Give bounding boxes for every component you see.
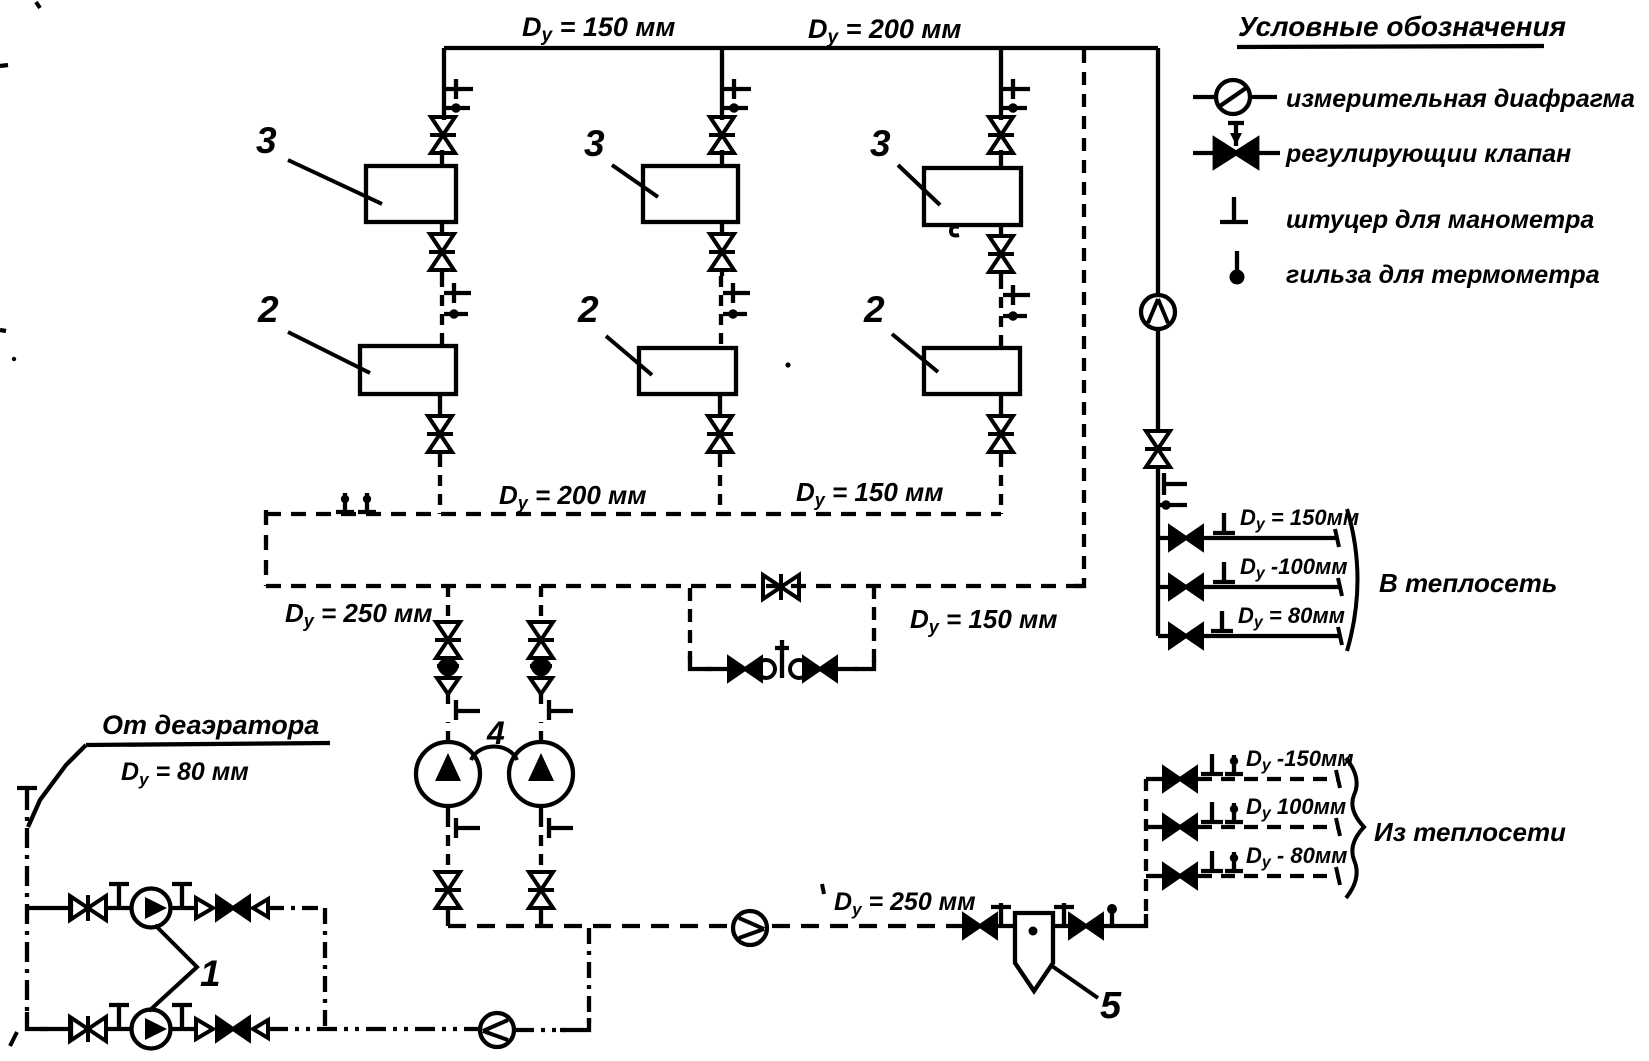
wire col2 dashed to return [718,456,722,514]
manometer fitting net2 [1213,562,1235,582]
heater 3 col1 [366,166,456,222]
valve col1 mid [429,234,455,270]
heater 3 col3 [924,168,1021,225]
branch to net 2 Dy100 [1158,585,1340,589]
elbow riser [560,1018,589,1030]
svg-text:В теплосеть: В теплосеть [1379,568,1557,598]
bypass elbow left [690,656,712,669]
manometer fitting col2 top [724,79,751,99]
branch from net 2 Dy100 [1146,825,1162,829]
mud filter 5 [1015,913,1053,991]
wire elbow to return line2 [1074,578,1084,586]
svg-text:2: 2 [863,289,885,330]
valve lower right solid [217,1018,249,1040]
wire col3 between [999,225,1003,278]
valve stack B: check valve bulb [530,658,552,677]
end tick net2 [1338,578,1342,596]
valve column1 top [430,117,456,153]
leader 2 col2 [606,336,652,375]
svg-text:измерительная диафрагма: измерительная диафрагма [1286,85,1635,113]
thermometer sleeve col2 top [724,103,748,112]
leader 2 col1 [288,332,370,373]
pipe 250 bottom dashed [448,924,962,928]
branch from net 3 Dy80 [1146,874,1162,878]
valve stack A: gate valve [435,622,461,658]
pump 4 A [416,742,480,806]
wire left elbow line1-line2 [264,510,268,586]
small c artifact under heater3 col3 [951,227,959,236]
valve stack A: foot triangle [437,678,459,694]
legend manometer fitting symbol [1220,197,1248,222]
heater 2 col2 [639,348,736,394]
thermometer sleeve pair on line1 [336,493,354,512]
manometer fitting lower 1 [109,1005,129,1029]
wire deaerator diagonal [28,745,86,827]
manometer fitting col3 top [1003,79,1030,99]
end tick from-net1 [1336,770,1340,788]
legend control valve symbol [1193,122,1280,153]
fitting pair from-net3 [1201,851,1223,871]
svg-text:штуцер для манометра: штуцер для манометра [1286,206,1594,234]
cap tick left vertical [17,786,37,790]
wire lower dash-dot-dot to diaphragm [268,1027,480,1031]
heater 2 col1 [360,346,456,394]
wire loop right vertical [323,908,327,1029]
wire col1 dashed mid [440,276,444,346]
pump feed column B [539,586,543,742]
pump1 lower suction [40,1027,70,1031]
wire dash-dot to loop [268,906,325,910]
end tick from-net2 [1336,818,1340,836]
leader 5 [1052,966,1098,998]
leader 3 col1 [288,160,382,204]
wire A lower dashed [446,816,450,872]
legend thermometer sleeve symbol [1235,251,1239,272]
scan tick bottom left [10,1032,17,1046]
valve col3 mid [988,236,1014,272]
bypass ball right [790,660,808,678]
manometer fitting col3 mid [1003,285,1030,305]
bypass drop left [688,588,692,660]
tail triangle lower [253,1020,268,1038]
wire return line1 Dy200/Dy150 dashed [266,512,1001,516]
heater 3 col2 [643,166,738,222]
branch to net 1 Dy150 [1158,536,1337,540]
end tick from-net3 [1336,867,1340,885]
wire [171,1027,196,1031]
brace from-net [1346,758,1364,898]
pipe: right supply main [1156,48,1160,636]
tick before label [822,884,824,894]
end tick net1 [1335,529,1339,547]
valve col2 bottom [707,416,733,452]
valve upper right solid [217,897,249,919]
thermometer sleeve col1 mid [444,309,468,318]
valve before mud filter [964,915,996,937]
wire column3 upper [999,48,1003,170]
underline deaerator [86,743,330,745]
valve right main [1145,431,1171,467]
thermometer sleeve right main [1158,503,1187,507]
thermometer sleeve col3 mid [1003,311,1027,320]
manometer fitting net1 [1213,513,1235,533]
svg-text:5: 5 [1100,985,1122,1027]
wire col1 dashed to return [438,456,442,514]
elbow left bottom [27,1012,48,1029]
valve upper left [70,895,106,921]
scan marks [0,65,8,331]
wire riser from lower return to 250 line [587,928,591,1029]
valve A bottom [435,872,461,908]
manometer fitting upper 2 [172,884,192,908]
wire column2 upper [720,48,724,168]
svg-text:3: 3 [256,120,277,161]
pump 1 upper [132,889,171,928]
valve branch net2 [1170,576,1202,598]
pump 1 lower [132,1010,171,1049]
heater 2 col3 [924,348,1020,394]
svg-text:Dy - 80мм: Dy - 80мм [1246,843,1347,871]
manometer fitting B lower [541,806,573,838]
wire A to 250 line [446,906,450,926]
svg-text:От деаэратора: От деаэратора [102,710,319,740]
manometer fitting col1 mid [444,283,471,303]
valve on line2 above bypass [763,574,799,600]
wire col3 lower [999,394,1003,456]
diaphragm on 250 line [733,911,767,945]
wire left feed vertical dash-dot [25,790,29,1016]
pipe: top header Dy150/Dy200 [444,46,1158,50]
valve stack B: foot triangle [530,678,552,694]
thermometer sleeve col3 top [1003,103,1027,112]
bypass elbow right [855,660,874,669]
manometer fitting right main [1164,473,1187,495]
valve stack A: check valve bulb [437,658,459,677]
wire col1 lower [438,394,442,456]
wire dashed drop from header [1082,50,1086,580]
manometer fitting lower 2 [172,1005,192,1029]
svg-text:Из теплосети: Из теплосети [1374,817,1566,847]
svg-text:2: 2 [577,289,599,330]
wire col3 dashed mid [999,278,1003,348]
wire from-net elbow [1127,914,1146,926]
manometer fitting net3 [1211,611,1233,631]
leader 4 curve [471,747,517,761]
leader 1 zigzag [149,925,197,1011]
manometer fitting right of filter [1054,903,1074,926]
manometer fitting B upper [549,700,573,720]
wire B to 250 line [539,906,543,926]
fitting pair from-net1 [1201,754,1223,774]
bypass run [705,667,858,671]
diaphragm lower return [480,1013,514,1047]
wire B lower dashed [539,816,543,872]
valve col3 bottom [988,416,1014,452]
leader 2 col3 [892,334,938,372]
pump 4 B [509,742,573,806]
svg-text:Dy 100мм: Dy 100мм [1246,794,1346,822]
tail triangle upper [253,899,268,917]
wire col2 dashed mid [719,276,723,348]
manometer fitting A lower [448,806,480,838]
valve col2 mid [709,234,735,270]
wire col3 dashed to return [999,456,1003,514]
valve col1 bottom [427,416,453,452]
wire [171,906,196,910]
valve stack B: gate valve [528,622,554,658]
svg-text:гильза для термометра: гильза для термометра [1286,261,1600,289]
branch from net 1 Dy150 [1146,777,1162,781]
wire from-net dashed drop [1144,779,1148,917]
valve from-net2 [1164,816,1196,838]
pump1 upper suction [27,906,70,910]
branch to net 3 Dy80 [1158,634,1340,638]
valve branch net1 [1170,527,1202,549]
legend diaphragm symbol [1193,95,1277,99]
leader 3 col2 [612,165,658,197]
manometer fitting col2 mid [723,283,750,303]
wire [106,1027,132,1031]
wire col2 between [720,222,724,276]
svg-text:1: 1 [200,953,221,994]
manometer fitting upper 1 [109,884,129,908]
valve column3 top [988,117,1014,153]
brace to-net [1347,509,1358,651]
leader 3 col3 [898,165,940,205]
wire lower return to riser [514,1028,566,1032]
valve from-net3 [1164,865,1196,887]
wire col1 between [440,222,444,276]
manometer fitting col1 top [446,79,473,99]
manometer fitting A upper [456,700,480,720]
wire column1 upper [442,48,444,168]
svg-text:3: 3 [870,123,891,164]
manometer fitting left of filter [991,903,1011,926]
bypass valve right [804,658,836,680]
wire [106,906,132,910]
check valve upper [196,898,213,918]
check valve lower [196,1019,213,1039]
thermometer sleeve col2 mid [723,309,747,318]
bypass ball left [757,660,775,678]
pump feed column A [446,586,450,742]
valve column2 top [709,117,735,153]
bypass valve left [729,658,761,680]
svg-text:регулирующии клапан: регулирующии клапан [1285,140,1571,168]
valve B bottom [528,872,554,908]
end tick net3 [1338,627,1342,645]
svg-text:Условные обозначения: Условные обозначения [1238,11,1566,42]
diaphragm on right main [1141,295,1175,329]
svg-text:3: 3 [584,123,605,164]
valve branch net3 [1170,625,1202,647]
thermometer sleeve col1 top [446,103,470,112]
wire col2 lower [718,394,722,456]
svg-text:2: 2 [257,289,279,330]
valve from-net1 [1164,768,1196,790]
bypass control stem [775,640,789,678]
thermometer sleeve after filter [1110,906,1114,926]
wire return line2 Dy250 dashed [266,584,1084,588]
fitting pair from-net2 [1201,802,1223,822]
valve lower left [70,1016,106,1042]
valve after mud filter [1070,915,1102,937]
